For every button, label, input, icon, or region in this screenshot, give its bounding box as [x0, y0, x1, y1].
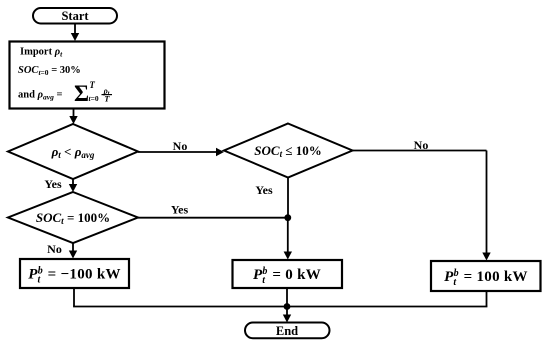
wire B1 down to bus [73, 288, 75, 307]
junction J2 [284, 303, 291, 310]
svg-text:Yes: Yes [44, 177, 62, 191]
decision D1: rho_t < rho_avg [8, 124, 138, 179]
bus wire [73, 306, 487, 308]
wire B2 down to junction J2 [286, 288, 288, 307]
process box B2: Pb = 0 kW [233, 260, 343, 288]
svg-text:t=0: t=0 [89, 94, 99, 103]
svg-text:Start: Start [61, 9, 89, 23]
svg-text:Σ: Σ [74, 81, 89, 106]
svg-text:No: No [47, 242, 62, 256]
svg-text:T: T [104, 94, 110, 104]
wire D1 to decision D2 [138, 148, 224, 156]
svg-text:End: End [276, 324, 298, 338]
process box B3: Pb = 100 kW [431, 261, 541, 291]
wire Import box to decision D1 [69, 109, 77, 125]
svg-text:Yes: Yes [255, 183, 273, 197]
junction J1 [284, 214, 291, 221]
svg-text:Import ρt: Import ρt [20, 47, 63, 59]
decision D2: SOC_t <= 10% [224, 124, 353, 178]
wire J2 to End [283, 307, 291, 323]
start terminal Start [33, 8, 117, 24]
wire D3 Yes to junction J1 [138, 217, 288, 219]
decision D3: SOC_t = 100% [8, 192, 138, 243]
svg-text:SOCt=0 = 30%: SOCt=0 = 30% [18, 65, 81, 77]
svg-text:No: No [173, 139, 188, 153]
wire J1 to box B2 [284, 218, 292, 260]
svg-text:T: T [89, 80, 95, 90]
process box B1: Pb = -100 kW [20, 259, 129, 288]
svg-text:SOCt ≤ 10%: SOCt ≤ 10% [254, 143, 321, 159]
wire D2 No to box B3 [353, 151, 491, 261]
svg-text:SOCt = 100%: SOCt = 100% [36, 210, 110, 226]
wire B3 down to bus [486, 291, 488, 307]
wire D1 to decision D3 [69, 179, 77, 192]
process box: Import data [10, 42, 165, 109]
wire D2 down to junction J1 [287, 178, 289, 218]
svg-text:Yes: Yes [171, 203, 189, 217]
end terminal End [245, 323, 330, 339]
svg-text:and ρavg =: and ρavg = [18, 90, 62, 102]
wire Start to Import box [71, 24, 79, 42]
wire D3 to box B1 [69, 243, 77, 259]
